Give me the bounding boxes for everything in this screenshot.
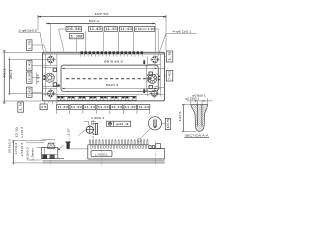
svg-text:10.5: 10.5 (166, 118, 170, 129)
svg-text:1.8: 1.8 (168, 51, 172, 61)
svg-text:8.5±0.3: 8.5±0.3 (27, 146, 30, 159)
svg-text:4-φ6.1±0.1: 4-φ6.1±0.1 (173, 30, 193, 34)
svg-text:107.5±: 107.5± (95, 12, 110, 16)
svg-text:11.43: 11.43 (98, 105, 109, 109)
svg-text:11.43: 11.43 (89, 27, 102, 31)
svg-text:22.5: 22.5 (146, 73, 150, 83)
svg-text:11.43: 11.43 (105, 27, 117, 31)
svg-text:1.7±0.3: 1.7±0.3 (21, 126, 24, 138)
svg-text:40±1: 40±1 (3, 67, 7, 78)
svg-text:35±1: 35±1 (9, 69, 13, 80)
svg-text:(2.5): (2.5) (15, 127, 18, 137)
svg-text:1.38: 1.38 (70, 34, 83, 38)
svg-text:SECTION A-A: SECTION A-A (185, 134, 209, 138)
svg-text:52±.1: 52±.1 (89, 19, 100, 23)
svg-text:7.43: 7.43 (168, 71, 172, 81)
svg-text:1.27: 1.27 (37, 73, 40, 82)
svg-text:11.43: 11.43 (84, 105, 95, 109)
svg-text:1.5min: 1.5min (32, 147, 35, 161)
svg-text:16.36: 16.36 (27, 72, 31, 83)
svg-text:17±0.4: 17±0.4 (15, 142, 18, 154)
svg-text:11.43: 11.43 (138, 105, 149, 109)
svg-text:1.97: 1.97 (68, 128, 71, 136)
svg-text:11.43: 11.43 (120, 27, 132, 31)
svg-text:3.81min 6.36: 3.81min 6.36 (135, 27, 155, 31)
svg-text:1.75: 1.75 (27, 40, 31, 50)
svg-text:7.43: 7.43 (27, 61, 31, 70)
svg-text:7.43: 7.43 (27, 87, 31, 96)
svg-text:11.43: 11.43 (111, 105, 122, 109)
svg-text:φ0.4: φ0.4 (116, 122, 129, 126)
svg-text:1.5: 1.5 (19, 101, 23, 111)
svg-text:11.43: 11.43 (71, 105, 82, 109)
svg-text:2-φ8.5±0.5: 2-φ8.5±0.5 (19, 28, 38, 32)
svg-text:52±0.3: 52±0.3 (106, 83, 119, 87)
svg-text:2.54±0.3: 2.54±0.3 (21, 142, 24, 156)
svg-text:24.36: 24.36 (67, 27, 81, 31)
svg-text:20.5±0.3: 20.5±0.3 (7, 139, 11, 153)
svg-text:11.43: 11.43 (57, 105, 68, 109)
svg-text:4.5: 4.5 (41, 105, 47, 109)
svg-text:φ2.75±0.1: φ2.75±0.1 (185, 97, 200, 101)
svg-text:69.8 ±0.5: 69.8 ±0.5 (104, 60, 123, 64)
svg-text:13±.5: 13±.5 (178, 111, 182, 122)
svg-text:11.43: 11.43 (125, 105, 136, 109)
